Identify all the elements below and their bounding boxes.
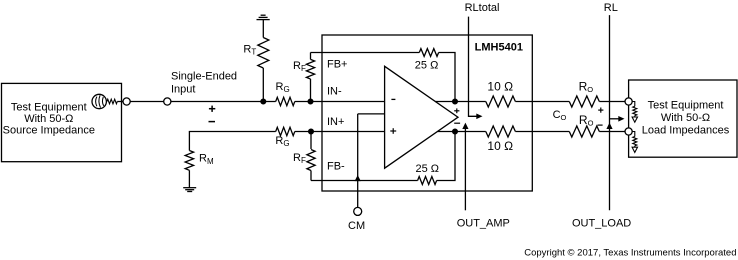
resistor RM	[185, 151, 193, 171]
junction RT/rail	[261, 99, 266, 104]
OUT_LOAD probe arrow	[572, 123, 631, 230]
svg-text:25 Ω: 25 Ω	[415, 60, 439, 72]
source 50-ohm resistor	[107, 99, 117, 104]
svg-text:OUT_AMP: OUT_AMP	[457, 218, 510, 230]
inverting input minus	[391, 98, 395, 100]
load port bottom	[625, 128, 632, 135]
resistor RG top	[276, 97, 295, 105]
svg-text:LMH5401: LMH5401	[475, 42, 523, 54]
output polarity minus	[454, 122, 460, 124]
wire RM to ground	[188, 170, 190, 187]
svg-text:Test Equipment: Test Equipment	[648, 100, 724, 112]
svg-text:Single-Ended: Single-Ended	[171, 71, 237, 83]
resistor RO bottom	[569, 126, 599, 137]
svg-text:Test Equipment: Test Equipment	[11, 101, 87, 113]
svg-text:CM: CM	[348, 220, 365, 232]
FB+ internal wire and 25 ohm	[311, 52, 420, 54]
wire RO to load bottom	[599, 131, 628, 133]
wire out bottom to RO	[515, 131, 569, 133]
junction FB+/out	[453, 99, 458, 104]
svg-text:RG: RG	[276, 81, 290, 94]
output rail bottom inside box	[438, 131, 486, 133]
resistor 10ohm bottom	[486, 126, 516, 137]
svg-text:OUT_LOAD: OUT_LOAD	[572, 218, 631, 230]
svg-text:CO: CO	[553, 109, 567, 122]
OUT_AMP probe	[457, 123, 510, 230]
input polarity minus	[209, 121, 216, 123]
svg-text:Load Impedances: Load Impedances	[642, 124, 730, 136]
svg-text:RL: RL	[604, 2, 618, 14]
svg-text:With 50-Ω: With 50-Ω	[661, 112, 710, 124]
load polarity plus	[598, 108, 603, 113]
load termination resistor bottom	[632, 132, 637, 153]
wire ground to RT	[262, 20, 264, 38]
svg-text:IN+: IN+	[327, 116, 344, 128]
svg-text:RT: RT	[243, 43, 256, 56]
load test equipment box	[629, 80, 737, 157]
ground below RM	[183, 188, 196, 192]
svg-text:RO: RO	[579, 80, 594, 95]
label Single-Ended Input	[171, 71, 237, 96]
load port top	[625, 98, 632, 105]
LMH5401 device box U1	[322, 35, 532, 191]
FB- internal wire and 25 ohm	[311, 180, 418, 182]
load ground top	[632, 117, 637, 122]
CM input line	[358, 114, 385, 207]
CM port circle	[354, 207, 362, 215]
resistor RG bottom	[276, 127, 295, 135]
resistor RF bottom	[307, 132, 315, 181]
load polarity minus	[598, 124, 603, 126]
svg-text:RO: RO	[579, 113, 594, 128]
ground above RT	[257, 15, 270, 19]
CM arrowhead	[355, 175, 361, 181]
non-inverting input plus	[390, 128, 396, 134]
port connector J2	[164, 98, 171, 105]
load ground bottom	[632, 147, 637, 152]
resistor 10ohm top	[486, 96, 516, 107]
wire RO to load top	[599, 101, 628, 103]
load termination resistor top	[632, 102, 637, 123]
svg-text:RG: RG	[275, 135, 289, 148]
wire RG to amp IN+	[295, 131, 385, 133]
svg-text:Copyright © 2017, Texas Instru: Copyright © 2017, Texas Instruments Inco…	[524, 247, 736, 258]
source test equipment box	[2, 83, 122, 161]
junction RF-top/rail	[308, 99, 313, 104]
wire main top rail	[117, 101, 275, 103]
svg-text:RF: RF	[293, 60, 306, 73]
wire out top to RO	[515, 101, 569, 103]
AC source	[92, 94, 106, 108]
RL probe	[604, 2, 625, 210]
svg-text:FB+: FB+	[327, 58, 347, 70]
output polarity plus	[454, 108, 459, 113]
op-amp triangle	[385, 66, 458, 168]
input polarity plus	[209, 106, 215, 112]
junction FB-/out	[453, 129, 458, 134]
svg-text:IN-: IN-	[327, 86, 342, 98]
RLtotal probe	[465, 2, 500, 119]
svg-text:Input: Input	[171, 84, 195, 96]
svg-text:RLtotal: RLtotal	[465, 2, 500, 14]
wire RT to rail	[262, 68, 264, 102]
svg-text:RM: RM	[199, 153, 214, 166]
output rail top inside box	[435, 101, 486, 103]
wire IN+ rail from RM corner	[189, 132, 275, 151]
svg-text:RF: RF	[293, 152, 306, 165]
resistor RO top	[569, 96, 599, 107]
svg-text:10 Ω: 10 Ω	[487, 139, 513, 153]
port connector J1	[123, 98, 130, 105]
svg-text:25 Ω: 25 Ω	[416, 163, 440, 175]
svg-text:Source Impedance: Source Impedance	[3, 125, 95, 137]
junction RF-bottom/rail	[309, 129, 314, 134]
svg-text:With 50-Ω: With 50-Ω	[24, 113, 73, 125]
resistor RT	[258, 38, 269, 68]
svg-text:FB-: FB-	[327, 160, 345, 172]
svg-text:10 Ω: 10 Ω	[487, 79, 513, 93]
wire RG to amp	[295, 101, 385, 103]
resistor RF top	[306, 53, 314, 102]
